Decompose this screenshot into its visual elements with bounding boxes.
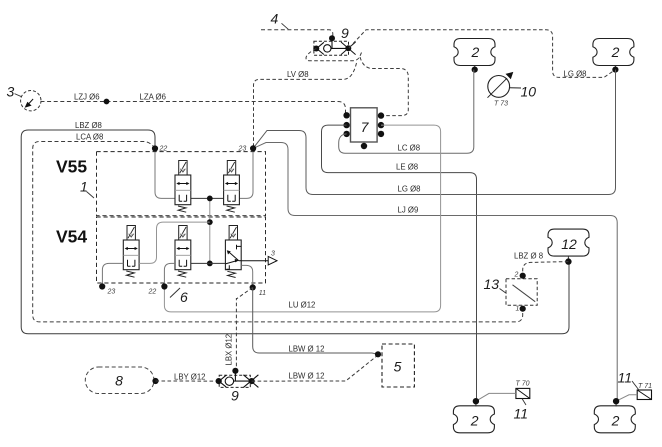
connection 8 (dashed stadium) <box>85 367 154 394</box>
svg-text:V54: V54 <box>56 227 87 247</box>
svg-text:LBZ Ø 8: LBZ Ø 8 <box>514 252 543 261</box>
node 22 (V55 top) <box>152 145 158 151</box>
wire LG dashed from valve 9 to reservoir 2 top-right <box>349 30 616 78</box>
label 13 with leader <box>484 276 507 294</box>
reservoir 2 (bottom right) <box>594 398 635 433</box>
sensor T70 <box>476 381 530 406</box>
exhaust line and triangle 3 of valve V54-3 <box>241 251 277 266</box>
svg-text:6: 6 <box>180 289 188 305</box>
wire between V55 valves <box>191 197 224 199</box>
wire V54 valve3 lower right exit to node 11 <box>241 265 253 287</box>
svg-text:LV Ø8: LV Ø8 <box>287 70 309 79</box>
svg-text:1: 1 <box>516 306 520 313</box>
shuttle valve 9 (bottom) <box>216 368 259 388</box>
wire dashed loop under valve 9 <box>306 49 362 61</box>
wire LBW dashed from shuttle valve 9 to box 5 <box>252 354 378 381</box>
svg-text:T 73: T 73 <box>494 101 508 108</box>
svg-text:LE Ø8: LE Ø8 <box>396 163 418 172</box>
wire V55 valve2 right port to node 23 <box>239 148 253 198</box>
wire LJ from node 23 to reservoir 2 bottom right <box>253 143 617 402</box>
wire LU from V54 node 22 to valve block 7 middle-right port <box>164 125 440 312</box>
wire LBY dashed from 8 to shuttle valve 9 bottom <box>156 380 219 382</box>
svg-text:LBZ Ø8: LBZ Ø8 <box>75 121 102 130</box>
transducer 10 with T 73 <box>488 72 522 98</box>
wire LBZ solid loop from node 22 around left/bottom to reservoir 12 <box>21 130 569 334</box>
wire LC from valve block 7 bottom-left port to reservoir 2 top middle <box>339 70 474 154</box>
valve V54-2 (3/2 solenoid) <box>175 226 191 278</box>
svg-text:7: 7 <box>361 119 370 135</box>
svg-text:LZA Ø6: LZA Ø6 <box>140 93 166 102</box>
svg-text:8: 8 <box>115 373 123 389</box>
shuttle valve 9 (top) <box>313 35 355 55</box>
wire from node 22 to V55 valve 1 left port <box>155 149 175 199</box>
reservoir 2 (bottom middle) <box>453 398 494 433</box>
svg-text:3: 3 <box>271 251 275 258</box>
wire LG solid from node 23 to reservoir 2 top right <box>253 70 615 195</box>
node at box 5 <box>375 351 381 357</box>
label 4 with leader <box>271 11 289 30</box>
node LZJ/LZA junction <box>104 99 110 105</box>
valve V55-2 (3/2 solenoid) <box>224 161 240 213</box>
svg-text:2: 2 <box>471 44 480 60</box>
svg-text:2: 2 <box>611 413 620 429</box>
node V54 junction upper <box>207 219 213 225</box>
svg-text:2: 2 <box>470 413 479 429</box>
node 23 (V54 bottom) <box>99 283 105 289</box>
svg-text:22: 22 <box>159 146 168 153</box>
label 1 with leader <box>80 179 94 199</box>
node port of 8 <box>152 378 158 384</box>
svg-text:9: 9 <box>341 25 349 41</box>
label 6 with tick <box>170 288 188 305</box>
svg-text:V55: V55 <box>56 157 87 177</box>
valve block 7 <box>343 108 384 149</box>
wire LBW solid from node 11 to box 5 <box>253 287 378 354</box>
V55 enclosure dashed box <box>97 152 266 216</box>
svg-text:9: 9 <box>231 388 239 404</box>
svg-text:LU Ø12: LU Ø12 <box>289 301 316 310</box>
node 11 (V54 bottom) <box>250 284 256 290</box>
wire LCA dashed loop from node 22 around left/bottom to switch 13 port 1 <box>33 142 523 322</box>
svg-text:LC Ø8: LC Ø8 <box>398 144 421 153</box>
wire LBX dashed from node 11 to shuttle valve 9 bottom <box>235 287 252 370</box>
wire LE from valve block 7 middle-left port to reservoir 2 bottom middle <box>322 125 477 401</box>
svg-text:2: 2 <box>611 44 620 60</box>
valve V54-1 (3/2 solenoid) <box>123 226 139 278</box>
node 23 (V55 top) <box>250 145 256 151</box>
svg-text:LJ Ø9: LJ Ø9 <box>398 206 419 215</box>
wire LZJ/LZA dashed from gauge 3 to valve block 7 <box>41 102 347 116</box>
reservoir 2 (top middle) <box>454 39 495 73</box>
pressure switch 13 <box>506 271 537 312</box>
valve V54-3 (3/2 solenoid actuated) <box>225 226 241 278</box>
svg-text:LBW Ø 12: LBW Ø 12 <box>289 372 325 381</box>
svg-text:2: 2 <box>514 271 519 278</box>
svg-text:13: 13 <box>484 276 500 292</box>
wire V54 valve1 left port to node 23 <box>102 263 123 286</box>
svg-text:12: 12 <box>561 236 577 252</box>
svg-text:22: 22 <box>148 289 157 296</box>
wire vertical V55 to V54 junction <box>209 198 211 263</box>
svg-text:11: 11 <box>514 406 529 422</box>
svg-text:23: 23 <box>107 289 116 296</box>
wire dashed stub 4 at top <box>261 30 333 39</box>
svg-text:T 71: T 71 <box>638 383 652 390</box>
svg-text:LCA Ø8: LCA Ø8 <box>76 133 103 142</box>
valve V55-1 (3/2 solenoid) <box>175 161 191 213</box>
svg-text:23: 23 <box>238 146 247 153</box>
wire V54 valve2 left port to node 22 <box>164 263 175 286</box>
wire LBZ dashed from reservoir 12 to switch 13 port 2 <box>523 262 569 276</box>
svg-text:11: 11 <box>618 370 633 386</box>
node V54 junction lower <box>207 261 213 267</box>
wire LV dashed from valve 9 loop to node 23 <box>254 63 357 146</box>
node 22 (V54 bottom) <box>161 283 167 289</box>
V54 enclosure dashed box <box>97 217 266 283</box>
svg-text:LBW Ø 12: LBW Ø 12 <box>289 345 325 354</box>
svg-text:LZJ Ø6: LZJ Ø6 <box>74 93 100 102</box>
svg-text:3: 3 <box>7 84 15 100</box>
svg-text:LG Ø8: LG Ø8 <box>564 70 587 79</box>
svg-text:10: 10 <box>521 84 537 100</box>
svg-text:4: 4 <box>271 11 279 27</box>
reservoir 2 (top right) <box>593 39 634 73</box>
sensor T71 <box>616 381 652 401</box>
svg-text:LBX Ø12: LBX Ø12 <box>225 334 234 366</box>
svg-text:LG Ø8: LG Ø8 <box>398 185 421 194</box>
svg-text:LBY Ø12: LBY Ø12 <box>174 373 206 382</box>
wire V54 valve1 right port up to junction <box>139 222 210 263</box>
box 5 (dashed) <box>382 344 414 387</box>
wire V54 valve2 right port to valve3 left port <box>191 262 226 264</box>
node between V55 valves <box>207 196 213 202</box>
svg-text:5: 5 <box>394 359 402 375</box>
svg-text:T 70: T 70 <box>516 381 530 388</box>
reservoir 12 <box>548 229 589 265</box>
gauge 3 (dashed circle with arrow) <box>15 91 42 111</box>
svg-text:11: 11 <box>259 290 266 297</box>
wire dashed from valve 9 to valve block 7 top-right port <box>360 57 408 116</box>
